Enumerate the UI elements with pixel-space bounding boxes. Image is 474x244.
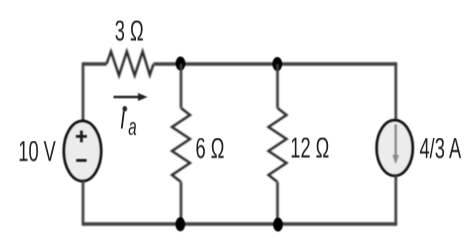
svg-text:6 Ω: 6 Ω xyxy=(196,133,225,165)
voltage source plus sign xyxy=(76,131,87,143)
svg-text:3 Ω: 3 Ω xyxy=(115,15,144,47)
svg-text:a: a xyxy=(128,115,136,141)
svg-text:4/3 A: 4/3 A xyxy=(420,133,462,165)
wire left vertical upper xyxy=(82,63,85,123)
wire 12ohm branch lower xyxy=(276,182,279,224)
node A top junction dot xyxy=(176,57,186,71)
wire bottom horizontal xyxy=(83,222,396,225)
resistor R3 12ohm zigzag xyxy=(269,108,287,182)
resistor R1 3ohm zigzag xyxy=(107,52,154,76)
svg-text:10 V: 10 V xyxy=(18,136,56,168)
svg-text:i: i xyxy=(121,99,126,136)
svg-text:12 Ω: 12 Ω xyxy=(290,132,329,164)
wire right vertical lower xyxy=(394,175,397,226)
current source I1 body xyxy=(377,120,413,175)
wire top-right horizontal xyxy=(154,62,397,65)
wire 12ohm branch upper xyxy=(276,64,279,108)
wire left vertical lower xyxy=(82,180,85,226)
voltage source minus sign xyxy=(76,159,86,162)
label ia xyxy=(121,99,137,141)
voltage source V1 body xyxy=(64,121,101,181)
node bottom junction dot left xyxy=(175,217,185,231)
wire top-left horizontal xyxy=(83,62,107,65)
node bottom junction dot right xyxy=(273,218,283,232)
current arrow ia xyxy=(114,93,148,101)
wire right vertical upper xyxy=(394,63,397,122)
wire 6ohm branch lower xyxy=(180,182,183,224)
current source arrow xyxy=(392,125,399,165)
resistor R2 6ohm zigzag xyxy=(172,108,190,182)
node B top junction dot xyxy=(272,57,282,71)
wire 6ohm branch upper xyxy=(180,64,183,108)
